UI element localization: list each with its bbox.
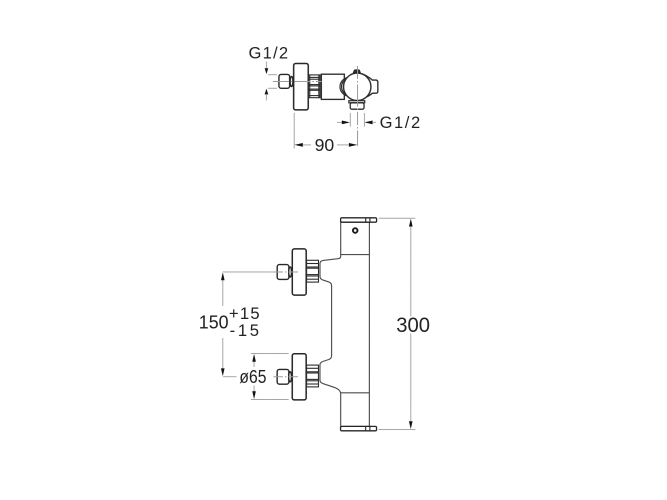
outlet collar (side view) xyxy=(349,101,365,103)
temperature stop nub xyxy=(353,70,360,73)
svg-text:G1/2: G1/2 xyxy=(380,114,421,132)
bar body profile xyxy=(320,222,369,426)
valve body (side view) xyxy=(321,74,344,99)
svg-text:150: 150 xyxy=(199,311,229,332)
centerline bottom connection xyxy=(273,376,300,378)
svg-text:ø65: ø65 xyxy=(239,366,266,387)
knob top connection xyxy=(277,265,289,280)
extension line knob top xyxy=(268,74,277,76)
dimension 300 xyxy=(379,217,416,219)
svg-text:G1/2: G1/2 xyxy=(249,45,289,63)
svg-text:-15: -15 xyxy=(230,321,259,340)
bottom cap separation line xyxy=(341,392,370,394)
screw hole xyxy=(353,228,358,233)
top cap separation line xyxy=(341,254,370,256)
svg-text:300: 300 xyxy=(396,314,430,337)
arrow down to knob top xyxy=(265,61,267,68)
extension line knob bottom xyxy=(268,87,277,89)
vertical centerline of valve body xyxy=(357,66,359,146)
nut bottom connection xyxy=(307,365,319,387)
bottom connection group xyxy=(273,354,318,400)
dimension 150 +15/-15 xyxy=(223,271,274,273)
bottom lip xyxy=(341,426,377,430)
outlet body (side view) xyxy=(350,103,364,109)
flange top connection xyxy=(292,249,306,295)
lip ticks bottom xyxy=(365,426,367,430)
centerline horizontal (inlet axis, side view) xyxy=(273,80,322,82)
cartridge chamfer arcs xyxy=(340,78,347,96)
knob (wall union, side view) xyxy=(279,74,290,88)
union nut (side view) xyxy=(308,75,320,98)
top connection group xyxy=(273,249,318,295)
dimension 90 xyxy=(293,113,295,149)
lip ticks top xyxy=(365,218,367,222)
cartridge cap circle (side view) xyxy=(344,73,371,100)
extension lines outlet edges xyxy=(349,113,351,127)
centerline top connection xyxy=(273,271,300,273)
handle lever (side view) xyxy=(362,74,378,98)
G1/2 outlet dimension arrows xyxy=(337,121,342,123)
dimension ø65 xyxy=(251,352,289,354)
arrow up to knob bottom xyxy=(265,89,269,95)
collar ellipse bottom connection xyxy=(289,372,292,382)
collar ellipse (side view) xyxy=(290,76,293,86)
knob bottom connection xyxy=(277,369,289,384)
svg-text:90: 90 xyxy=(315,135,335,155)
flange (side view) xyxy=(294,63,309,109)
top lip xyxy=(341,218,377,222)
nut top connection xyxy=(307,260,319,282)
flange bottom connection xyxy=(292,354,306,400)
collar ellipse top connection xyxy=(289,267,292,277)
